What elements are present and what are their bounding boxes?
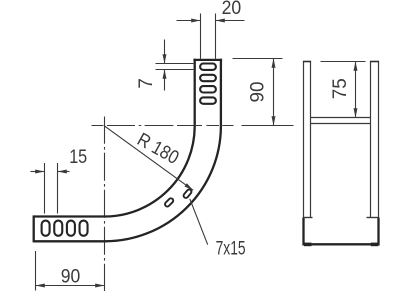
slot row in vertical run <box>200 64 216 104</box>
side view: right rail top cap <box>370 61 379 63</box>
dimension 7 (left of vertical run) <box>156 40 194 91</box>
tray outline: left end cap <box>33 215 35 242</box>
dimension 20 (top) <box>177 14 245 59</box>
side view: lower channel outline <box>304 218 379 245</box>
svg-text:7: 7 <box>136 78 157 89</box>
angled slot B on bend <box>183 189 193 199</box>
svg-text:15: 15 <box>69 147 87 168</box>
slot V4 <box>200 97 216 103</box>
side view: left rail top cap <box>303 61 311 63</box>
dimension 15 (above horizontal run) <box>31 163 70 214</box>
angled slot A on bend <box>164 197 174 207</box>
dimension 90 (bottom) <box>36 251 105 291</box>
side view: right foot <box>371 243 379 247</box>
vertical centerline through bend centre <box>104 117 106 292</box>
side view: right rail <box>371 62 379 218</box>
svg-text:7x15: 7x15 <box>216 239 246 260</box>
slot H3 <box>67 221 75 236</box>
svg-text:90: 90 <box>248 82 269 103</box>
tray outline: top end cap <box>193 59 222 61</box>
slot row in horizontal run <box>42 221 88 236</box>
slot H2 <box>54 221 62 236</box>
horizontal centerline through bend centre <box>92 125 294 127</box>
svg-text:75: 75 <box>330 78 351 99</box>
tray outline: outer boundary (right wall, outer arc, bottom of horizontal run) <box>34 59 221 242</box>
leader for slot size <box>190 199 208 245</box>
dimension 90 (right side of bend) <box>233 59 283 126</box>
dimension 75 (side view) <box>321 62 366 118</box>
svg-text:90: 90 <box>61 267 81 288</box>
radius line R180 <box>105 126 194 190</box>
side view: bend bottom double line <box>311 118 371 124</box>
slot H1 <box>42 221 50 236</box>
slot V1 <box>200 64 216 70</box>
side view: left rail <box>304 62 311 218</box>
side view: left foot <box>304 243 312 247</box>
side view: right step <box>367 217 379 219</box>
tray outline: inner boundary (left wall, inner arc, top of horizontal run) <box>34 59 195 217</box>
slot V2 <box>200 75 216 81</box>
slot H4 <box>80 221 88 236</box>
svg-text:20: 20 <box>222 0 242 19</box>
side view: left step <box>304 217 313 219</box>
slot V3 <box>200 86 216 92</box>
